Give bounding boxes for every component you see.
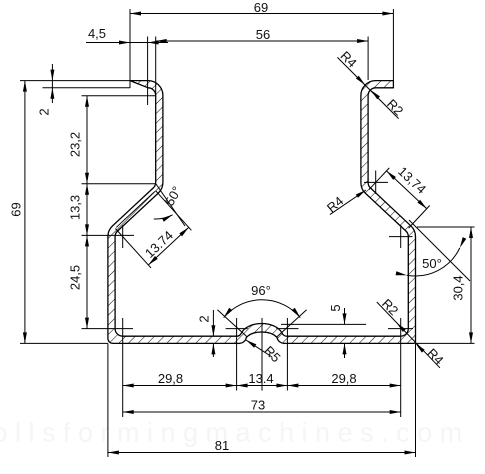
svg-text:5: 5: [328, 304, 343, 311]
svg-text:50°: 50°: [422, 256, 442, 271]
R4R2 top leader: [337, 57, 398, 118]
ext line x236.6 down: [236, 318, 238, 391]
arrow 2 top: [50, 70, 54, 81]
arrow 30,4 top: [469, 227, 473, 238]
13.74R ext2: [409, 206, 430, 229]
ext line bump top: [281, 323, 366, 325]
dim line 81: [108, 452, 416, 454]
dim line 13.4: [237, 385, 288, 387]
ext line lip top left: [20, 80, 130, 82]
arrow 69 right: [382, 12, 393, 16]
arrow 69v top: [23, 81, 27, 92]
svg-text:23,2: 23,2: [68, 132, 83, 157]
arrow 69 left: [130, 12, 141, 16]
arrow 23,2 bottom: [85, 173, 89, 184]
arrow 69v bottom: [23, 332, 27, 343]
13.74L dim: [148, 227, 188, 265]
arrow 29,8l L: [123, 384, 134, 388]
cross C4 h: [388, 328, 413, 330]
R2R4 bottom leader: [377, 302, 440, 368]
arrow 13.74R a: [387, 171, 396, 180]
ext line bump center: [261, 318, 263, 391]
50deg right leg: [409, 220, 470, 281]
svg-text:rollsformingmachines.com: rollsformingmachines.com: [0, 418, 470, 448]
dim line 29,8 right: [287, 385, 400, 387]
dim line 73: [123, 411, 401, 413]
arrow 13,3 bottom: [85, 224, 89, 235]
ext line y95.7: [82, 95, 156, 97]
cross B1 h: [226, 328, 248, 330]
dim line 24,5: [86, 235, 88, 328]
ext line x400.7 down: [400, 318, 402, 417]
arrow R2 bottom: [397, 323, 406, 332]
arrow 13.74L a: [148, 256, 157, 265]
ext line y235.4: [82, 234, 135, 236]
svg-text:69: 69: [254, 0, 268, 15]
arrow 50R end1: [396, 271, 407, 275]
ext line lip-left end: [129, 9, 131, 88]
ext line y183.8: [82, 183, 156, 185]
arrow 50R end2: [460, 237, 467, 248]
R4 middle leader: [330, 190, 366, 215]
dim line 2 left: [51, 64, 53, 103]
arrow 2b top: [211, 325, 215, 336]
dim line 56: [156, 40, 368, 42]
arrow R4 bottom: [416, 343, 425, 352]
arrow 23,2 top: [85, 96, 89, 107]
arrow 56 right: [357, 39, 368, 43]
arrow 73 R: [390, 410, 401, 414]
hatch line left slope: [116, 192, 155, 228]
svg-text:96°: 96°: [251, 283, 271, 298]
arrow 13.4 L: [237, 384, 248, 388]
dim line 13,3: [86, 184, 88, 236]
svg-text:2: 2: [197, 315, 212, 322]
arrow 4,5 left: [119, 41, 130, 45]
96deg right leg: [277, 310, 307, 337]
arrow 13.74L b: [179, 227, 188, 236]
ext line lip-right end: [392, 9, 394, 80]
arrow R2 top: [371, 90, 380, 99]
arrow 96 left: [224, 308, 233, 318]
svg-text:30,4: 30,4: [451, 275, 466, 300]
ext line lip bottom left: [43, 87, 131, 89]
arrow 4,5 right: [148, 41, 159, 45]
ext line x415.5 down: [415, 343, 417, 457]
dim line 2 bottom lower: [212, 343, 214, 357]
svg-text:4,5: 4,5: [88, 26, 106, 41]
svg-text:29,8: 29,8: [331, 371, 356, 386]
dim line 5 lower: [344, 343, 346, 358]
arrow 13.4 R: [276, 384, 287, 388]
arrow 81 R: [405, 451, 416, 455]
ext line x107.9 down: [107, 343, 109, 457]
arrow 13.74R b: [417, 200, 426, 209]
13.74R dim: [387, 171, 427, 209]
svg-text:69: 69: [9, 202, 24, 216]
svg-text:73: 73: [251, 398, 265, 413]
svg-text:56: 56: [256, 27, 270, 42]
arrow 56 left: [156, 39, 167, 43]
arrow 2 bottom: [50, 88, 54, 99]
50deg right arc: [407, 248, 460, 276]
50deg left arc: [154, 215, 173, 219]
profile cross-section with hatching: [108, 81, 416, 344]
arrow 5 top: [343, 313, 347, 324]
ext line y328.6: [82, 328, 134, 330]
cross K4 h: [389, 236, 413, 238]
ext line x122.7 down: [122, 318, 124, 417]
ext line flange bottom left: [20, 342, 108, 344]
dim line 5 upper: [344, 308, 346, 324]
96deg left leg: [217, 310, 247, 337]
cross K4 v: [400, 225, 402, 248]
ext line flange bottom right: [416, 342, 475, 344]
cross K3 h: [364, 181, 388, 183]
dim line 69 top: [130, 13, 393, 15]
dim line 4,5: [86, 42, 168, 44]
arrow 5 bottom: [343, 343, 347, 354]
arrow 29,8r R: [390, 384, 401, 388]
cross K2 v: [122, 225, 124, 248]
svg-text:81: 81: [215, 438, 229, 453]
arrow R4 top: [356, 76, 365, 85]
arrow 96 right: [292, 308, 301, 318]
dim line 23,2: [86, 96, 88, 184]
svg-text:2: 2: [37, 108, 52, 115]
ext line y227 right: [417, 226, 475, 228]
arrow 24,5 bottom: [85, 318, 89, 329]
arrow R5: [246, 340, 256, 348]
svg-text:13,3: 13,3: [68, 195, 83, 220]
arrow 73 L: [123, 410, 134, 414]
dim line 69 left: [24, 81, 26, 344]
13.74L ext1: [115, 229, 151, 268]
arrow 29,8l R: [226, 384, 237, 388]
ext line 56 right: [367, 37, 369, 81]
arrow 81 L: [108, 451, 119, 455]
dim line 2 bottom upper: [212, 310, 214, 336]
cross B2 h: [276, 328, 298, 330]
arrow 13,3 top: [85, 184, 89, 195]
svg-text:13.4: 13.4: [248, 371, 273, 386]
dim line 30,4: [470, 227, 472, 343]
ext line 56 left: [155, 37, 157, 96]
arrow 2b bottom: [211, 343, 215, 354]
arrow 29,8r L: [287, 384, 298, 388]
arrow 30,4 bottom: [469, 332, 473, 343]
arrow 24,5 top: [85, 235, 89, 246]
ext line x287.4 down: [286, 318, 288, 391]
13.74L ext2: [156, 191, 192, 230]
dim line 29,8 left: [123, 385, 237, 387]
arrow R4 middle: [356, 190, 366, 198]
arrow 50L end2: [162, 215, 173, 222]
svg-text:29,8: 29,8: [158, 371, 183, 386]
50deg left leg: [156, 184, 185, 226]
R5 leader: [246, 340, 272, 357]
ext line 4,5 right: [147, 37, 149, 106]
svg-text:24,5: 24,5: [68, 265, 83, 290]
cross K3 v: [375, 171, 377, 195]
13.74R ext1: [369, 168, 389, 190]
96deg arc: [224, 300, 301, 318]
